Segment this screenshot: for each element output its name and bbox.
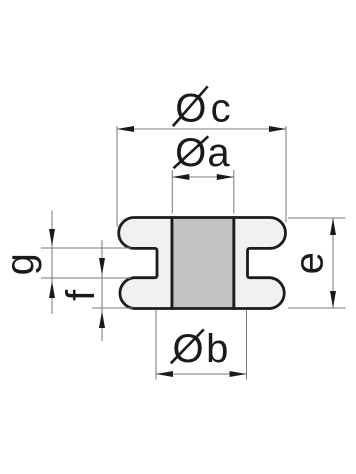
dimension Øc line	[117, 128, 286, 130]
dimension e arrow top	[330, 218, 336, 235]
dimension Øb arrow right	[230, 371, 247, 377]
dimension g extension line top	[41, 247, 131, 249]
dimension Øa extension line right	[233, 170, 235, 214]
dimension Øa extension line left	[171, 170, 173, 214]
svg-text:g: g	[0, 253, 42, 275]
dimension Øa arrow left	[172, 174, 189, 180]
dimension e extension line top	[288, 217, 346, 219]
svg-text:e: e	[288, 252, 332, 274]
svg-text:a: a	[207, 131, 230, 175]
dimension Øb extension line right	[246, 310, 248, 380]
dimension Øa line	[172, 176, 234, 178]
dimension f arrow bottom	[99, 311, 105, 328]
dimension f line	[101, 240, 103, 341]
dimension Øb arrow left	[156, 371, 173, 377]
dimension Øc arrow right	[269, 126, 286, 132]
svg-text:f: f	[59, 289, 103, 301]
grommet left flange cross-section	[119, 218, 172, 309]
dimension Øa arrow right	[217, 174, 234, 180]
dimension e extension line bottom	[288, 307, 346, 309]
dimension Øa label	[174, 131, 231, 175]
dimension Øc extension line right	[285, 126, 287, 222]
svg-text:c: c	[211, 86, 231, 130]
dimension Øb extension line left	[155, 310, 157, 380]
dimension f arrow top	[99, 258, 105, 275]
dimension g extension line bottom (shared with f)	[41, 277, 131, 279]
dimension Øc arrow left	[117, 126, 134, 132]
svg-text:b: b	[206, 327, 228, 371]
dimension g arrow bottom	[49, 281, 55, 298]
dimension f extension line bottom	[92, 307, 133, 309]
grommet bore section (Øa core)	[172, 218, 234, 309]
dimension Øb label	[171, 327, 229, 371]
dimension e arrow bottom	[330, 291, 336, 308]
dimension g arrow top	[49, 229, 55, 246]
dimension e line	[332, 218, 334, 308]
dimension Øc label	[173, 86, 231, 130]
dimension Øc extension line left	[116, 126, 118, 227]
grommet right flange cross-section	[234, 218, 286, 309]
dimension g line	[51, 211, 53, 315]
dimension Øb line	[156, 373, 247, 375]
